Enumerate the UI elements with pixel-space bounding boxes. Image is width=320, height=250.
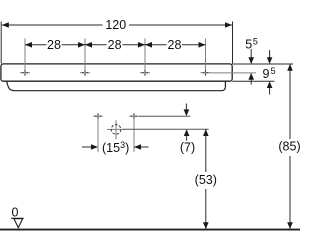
svg-text:28: 28 <box>47 38 61 52</box>
svg-text:9: 9 <box>263 67 270 81</box>
svg-text:(7): (7) <box>180 141 195 155</box>
svg-text:0: 0 <box>12 206 19 220</box>
svg-text:28: 28 <box>168 38 182 52</box>
svg-text:28: 28 <box>108 38 122 52</box>
svg-text:(153): (153) <box>102 140 129 155</box>
svg-text:120: 120 <box>105 18 126 32</box>
svg-text:(53): (53) <box>195 173 217 187</box>
svg-text:(85): (85) <box>278 140 300 154</box>
svg-text:5: 5 <box>271 66 276 76</box>
svg-text:5: 5 <box>253 36 258 46</box>
svg-text:5: 5 <box>245 37 252 51</box>
